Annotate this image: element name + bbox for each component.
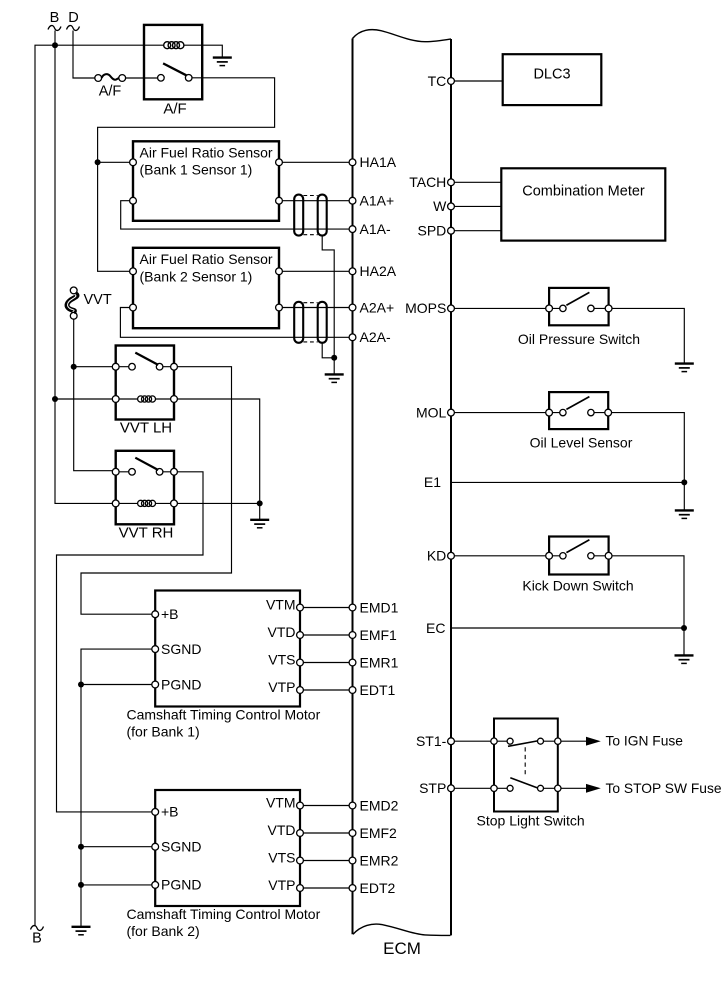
pin EMR2 (ECM) bbox=[349, 852, 399, 868]
pin EMD2 (ECM) bbox=[349, 797, 399, 813]
wire MOPS to oil pressure switch bbox=[454, 307, 545, 309]
relay K1 A/F box bbox=[144, 25, 202, 99]
pin AFR1 upper-left bbox=[130, 159, 137, 166]
motor box: Camshaft Timing Control Motor (for Bank 2) bbox=[155, 790, 300, 906]
ground (relay coil) bbox=[213, 58, 232, 66]
wire HA1A bbox=[282, 161, 349, 163]
svg-text:+B: +B bbox=[161, 606, 179, 622]
pin SGND bank2 bbox=[152, 843, 159, 850]
pin MOL (ECM) bbox=[416, 404, 454, 420]
wire B bus to A/F relay coil bbox=[55, 44, 164, 46]
svg-text:Air Fuel Ratio Sensor: Air Fuel Ratio Sensor bbox=[140, 251, 273, 267]
pin AFR2 lower-left bbox=[130, 304, 137, 311]
valve VVT RH (oil control valve box) bbox=[116, 451, 174, 525]
pin PGND bank2 bbox=[152, 882, 159, 889]
svg-text:B: B bbox=[32, 931, 42, 947]
relay switch blade bbox=[163, 63, 186, 75]
wire STP output to stop switch fuse bbox=[561, 787, 586, 789]
wire VTP to EDT2 bbox=[303, 887, 349, 889]
ground (EC) bbox=[675, 655, 694, 663]
wire SPD to combination meter bbox=[454, 230, 501, 232]
wire KD to kick down switch bbox=[454, 555, 545, 557]
svg-text:(for Bank 2): (for Bank 2) bbox=[127, 923, 200, 939]
svg-text:Stop Light Switch: Stop Light Switch bbox=[477, 812, 585, 828]
wire PGND bank1 to ground bus bbox=[81, 684, 152, 686]
wire VTD to EMF1 bbox=[303, 634, 349, 636]
svg-text:PGND: PGND bbox=[161, 877, 201, 893]
junction shield drains bbox=[331, 355, 337, 361]
pin VVT LH coil right bbox=[171, 396, 178, 403]
svg-text:STP: STP bbox=[419, 780, 446, 796]
VVT LH coil bbox=[138, 396, 156, 402]
svg-text:MOL: MOL bbox=[416, 404, 447, 420]
pin VTM bank1 bbox=[297, 604, 304, 611]
svg-text:SGND: SGND bbox=[161, 839, 201, 855]
wire EC junction to ground bbox=[683, 628, 685, 655]
svg-text:A/F: A/F bbox=[163, 101, 186, 118]
wire SGND bank2 to ground bus bbox=[81, 846, 152, 848]
wire B bus tap to VVT LH coil left pin bbox=[55, 398, 112, 400]
svg-text:W: W bbox=[433, 198, 447, 214]
wire MOL to oil level sensor bbox=[454, 412, 545, 414]
pin HA1A (ECM) bbox=[349, 154, 397, 170]
fuse A/F bbox=[95, 74, 126, 81]
meter box: Combination Meter bbox=[501, 168, 665, 240]
wire fuse to relay switch contact bbox=[126, 77, 158, 79]
svg-text:MOPS: MOPS bbox=[405, 300, 446, 316]
pin MOPS (ECM) bbox=[405, 300, 454, 316]
svg-text:VTP: VTP bbox=[268, 679, 295, 695]
wire supply stub to AFR sensor 1 bbox=[98, 161, 130, 163]
svg-text:EC: EC bbox=[426, 620, 445, 636]
pin HA2A (ECM) bbox=[349, 263, 397, 279]
wire ST1- to stop light switch bbox=[454, 740, 490, 742]
pin SPD (ECM) bbox=[418, 223, 455, 239]
svg-text:VTD: VTD bbox=[268, 624, 296, 640]
arrow to STOP SW fuse bbox=[586, 784, 601, 793]
svg-text:EMR1: EMR1 bbox=[360, 654, 399, 670]
wire EC bbox=[452, 627, 684, 629]
wire TACH to combination meter bbox=[454, 181, 501, 183]
pin EMF1 (ECM) bbox=[349, 627, 397, 643]
svg-text:Oil Level Sensor: Oil Level Sensor bbox=[530, 434, 633, 450]
relay switch contacts bbox=[158, 75, 165, 82]
svg-text:ST1-: ST1- bbox=[416, 733, 447, 749]
pin A1A+ (ECM) bbox=[349, 193, 394, 209]
svg-text:VTS: VTS bbox=[268, 850, 295, 866]
pin VVT LH switch right bbox=[171, 363, 178, 370]
wire VTM to EMD2 bbox=[303, 805, 349, 807]
pin VTP bank2 bbox=[297, 885, 304, 892]
wire drain to ground bbox=[333, 358, 335, 374]
junction VVT coils ground bbox=[257, 500, 263, 506]
svg-text:DLC3: DLC3 bbox=[533, 67, 570, 83]
connector box DLC3 bbox=[503, 54, 602, 105]
svg-text:Camshaft Timing Control Motor: Camshaft Timing Control Motor bbox=[127, 706, 321, 722]
pin ST1- (ECM) bbox=[416, 733, 454, 749]
svg-text:EMF2: EMF2 bbox=[360, 825, 398, 841]
switch S1: Oil Pressure Switch bbox=[546, 288, 612, 325]
pin AFR2 upper-left bbox=[130, 268, 137, 275]
relay coil bbox=[164, 42, 184, 49]
pin A2A- (ECM) bbox=[349, 329, 391, 345]
valve VVT LH (oil control valve box) bbox=[116, 346, 174, 420]
pin TACH (ECM) bbox=[409, 174, 454, 190]
node B (battery bus, top label and break) bbox=[48, 10, 61, 30]
wire PGND bank2 to ground bus bbox=[81, 884, 152, 886]
pin TC (ECM) bbox=[428, 73, 455, 89]
wire relay output to AFR sensors supply bbox=[98, 78, 275, 271]
svg-text:+B: +B bbox=[161, 804, 179, 820]
wire E1 bbox=[452, 481, 684, 483]
sensor box: Air Fuel Ratio Sensor (Bank 2 Sensor 1) bbox=[133, 248, 279, 328]
svg-text:A2A-: A2A- bbox=[360, 329, 391, 345]
svg-text:VTS: VTS bbox=[268, 652, 295, 668]
svg-text:VVT LH: VVT LH bbox=[120, 420, 172, 437]
svg-text:KD: KD bbox=[427, 548, 446, 564]
svg-text:Air Fuel Ratio Sensor: Air Fuel Ratio Sensor bbox=[140, 144, 273, 160]
svg-text:Camshaft Timing Control Motor: Camshaft Timing Control Motor bbox=[127, 906, 321, 922]
wire junction to ground bbox=[259, 503, 261, 519]
wire oil level sensor to E1 junction bbox=[612, 413, 685, 483]
svg-text:A/F: A/F bbox=[99, 84, 122, 100]
ground (E1) bbox=[675, 510, 694, 518]
svg-text:To STOP SW Fuse: To STOP SW Fuse bbox=[606, 781, 722, 796]
wire VTM to EMD1 bbox=[303, 607, 349, 609]
svg-text:SPD: SPD bbox=[418, 223, 447, 239]
wire TC to DLC3 bbox=[454, 80, 502, 82]
junction PGND bank1 bbox=[78, 682, 84, 688]
pin EMR1 (ECM) bbox=[349, 654, 399, 670]
pin AFR1 lower-left bbox=[130, 197, 137, 204]
svg-text:VTP: VTP bbox=[268, 877, 295, 893]
wire A1A- under-box route bbox=[121, 201, 349, 229]
svg-text:VTM: VTM bbox=[266, 795, 296, 811]
wire VVT LH switch to +B of motor bank 1 bbox=[81, 367, 232, 615]
connector VVT (twisted wire symbol) bbox=[67, 287, 77, 319]
svg-text:EDT2: EDT2 bbox=[360, 880, 396, 896]
wire W to combination meter bbox=[454, 205, 501, 207]
wire kick down switch to EC junction bbox=[612, 556, 684, 628]
pin +B bank2 bbox=[152, 809, 159, 816]
node B (bottom label and break) bbox=[31, 926, 44, 947]
svg-text:A2A+: A2A+ bbox=[360, 299, 395, 315]
arrow to IGN fuse bbox=[586, 737, 601, 746]
svg-text:HA1A: HA1A bbox=[360, 154, 397, 170]
wire A2A+ bbox=[282, 307, 349, 309]
svg-text:E1: E1 bbox=[424, 474, 441, 490]
svg-text:(for Bank 1): (for Bank 1) bbox=[127, 724, 200, 740]
pin VTD bank2 bbox=[297, 830, 304, 837]
svg-text:EMF1: EMF1 bbox=[360, 627, 398, 643]
pin EDT1 (ECM) bbox=[349, 682, 395, 698]
svg-text:EMD2: EMD2 bbox=[360, 797, 399, 813]
wire VTP to EDT1 bbox=[303, 689, 349, 691]
pin A1A- (ECM) bbox=[349, 221, 391, 237]
pin EMF2 (ECM) bbox=[349, 825, 397, 841]
svg-text:VTD: VTD bbox=[268, 822, 296, 838]
wire SGND bank1 to ground bus bbox=[81, 649, 152, 926]
pin SGND bank1 bbox=[152, 646, 159, 653]
wire A2A- under-box route bbox=[120, 308, 349, 338]
wire ST1- output to IGN fuse bbox=[561, 740, 586, 742]
wire B bus vertical x=55 down to VVT RH coil bbox=[55, 31, 112, 504]
junction on B bus at VVT LH coil tap bbox=[52, 396, 58, 402]
junction SGND bank2 bbox=[78, 844, 84, 850]
pin VTP bank1 bbox=[297, 687, 304, 694]
node D (bus label and break) bbox=[67, 10, 80, 30]
wire VVT LH coil to ground junction bbox=[177, 399, 259, 503]
pin KD (ECM) bbox=[427, 548, 455, 564]
wire VVT tap to VVT LH switch pin bbox=[74, 366, 113, 368]
pin AFR2 lower-right bbox=[276, 304, 283, 311]
svg-text:HA2A: HA2A bbox=[360, 263, 397, 279]
svg-text:(Bank 2 Sensor 1): (Bank 2 Sensor 1) bbox=[140, 268, 253, 284]
wire B bus branch to far-left vertical x=35 bbox=[35, 45, 55, 926]
VVT RH coil bbox=[138, 500, 156, 506]
svg-text:A1A-: A1A- bbox=[360, 221, 391, 237]
motor box: Camshaft Timing Control Motor (for Bank 1) bbox=[155, 591, 300, 707]
svg-text:EMD1: EMD1 bbox=[360, 599, 399, 615]
pin VVT RH coil right bbox=[171, 500, 178, 507]
wire A1A+ bbox=[282, 200, 349, 202]
ECM connector body U1 (ECM) bbox=[353, 30, 452, 936]
svg-text:To IGN Fuse: To IGN Fuse bbox=[606, 734, 684, 749]
pin A2A+ (ECM) bbox=[349, 299, 394, 315]
junction on B bus at y=45 bbox=[52, 42, 58, 48]
pin +B bank1 bbox=[152, 611, 159, 618]
pin PGND bank1 bbox=[152, 681, 159, 688]
junction PGND bank2 bbox=[78, 882, 84, 888]
wire HA2A bbox=[282, 270, 349, 272]
svg-text:TC: TC bbox=[428, 73, 447, 89]
wire VVT RH switch to +B of motor bank 2 bbox=[57, 472, 204, 812]
pin VVT RH switch right bbox=[171, 468, 178, 475]
pin VVT RH switch left bbox=[112, 468, 119, 475]
svg-text:Kick Down Switch: Kick Down Switch bbox=[522, 578, 633, 594]
svg-text:A1A+: A1A+ bbox=[360, 193, 395, 209]
ground (oil pressure switch) bbox=[675, 364, 694, 372]
wire VVT to VVT RH switch bbox=[74, 319, 113, 471]
ground (shield drain) bbox=[325, 374, 344, 382]
svg-text:VVT: VVT bbox=[84, 292, 112, 308]
pin W (ECM) bbox=[433, 198, 454, 214]
svg-text:ECM: ECM bbox=[383, 939, 421, 958]
shield pair 2 (noise filter capsules) bbox=[294, 302, 327, 343]
pin VTS bank2 bbox=[297, 857, 304, 864]
junction VVT tap to VVT LH bbox=[71, 364, 77, 370]
junction EC ground bbox=[681, 625, 687, 631]
svg-text:TACH: TACH bbox=[409, 174, 446, 190]
svg-text:(Bank 1 Sensor 1): (Bank 1 Sensor 1) bbox=[140, 162, 253, 178]
svg-text:Oil Pressure Switch: Oil Pressure Switch bbox=[518, 331, 640, 347]
wire VVT RH coil to ground junction bbox=[177, 502, 259, 504]
wire VTD to EMF2 bbox=[303, 832, 349, 834]
pin AFR2 upper-right bbox=[276, 268, 283, 275]
junction AFR supply at sensor 1 bbox=[95, 159, 101, 165]
pin VVT LH coil left bbox=[112, 396, 119, 403]
wire shield drain 2 bbox=[322, 343, 334, 358]
svg-text:B: B bbox=[50, 10, 60, 26]
pin VTM bank2 bbox=[297, 802, 304, 809]
wire VTS to EMR2 bbox=[303, 860, 349, 862]
svg-text:PGND: PGND bbox=[161, 676, 201, 692]
wire E1 junction to ground bbox=[683, 482, 685, 510]
ground (motor ground bus) bbox=[72, 927, 91, 935]
svg-text:Combination Meter: Combination Meter bbox=[522, 183, 645, 199]
switch S3: Kick Down Switch bbox=[546, 537, 612, 575]
svg-text:EMR2: EMR2 bbox=[360, 852, 399, 868]
pin AFR1 lower-right bbox=[276, 197, 283, 204]
pin STP (ECM) bbox=[419, 780, 454, 796]
pin VVT RH coil left bbox=[112, 500, 119, 507]
sensor box: Air Fuel Ratio Sensor (Bank 1 Sensor 1) bbox=[133, 141, 279, 221]
pin VTD bank1 bbox=[297, 632, 304, 639]
pin EDT2 (ECM) bbox=[349, 880, 395, 896]
wire oil pressure switch to ground bbox=[612, 308, 684, 363]
svg-text:VTM: VTM bbox=[266, 597, 296, 613]
svg-text:D: D bbox=[68, 10, 78, 26]
wire relay coil to ground bbox=[184, 45, 222, 57]
svg-text:EDT1: EDT1 bbox=[360, 682, 396, 698]
wire D bus to A/F fuse bbox=[73, 31, 95, 79]
switch S2: Oil Level Sensor bbox=[546, 392, 612, 429]
wire STP to stop light switch bbox=[454, 787, 490, 789]
wire VTS to EMR1 bbox=[303, 662, 349, 664]
pin AFR1 upper-right bbox=[276, 159, 283, 166]
svg-text:SGND: SGND bbox=[161, 641, 201, 657]
junction E1 ground bbox=[681, 479, 687, 485]
shield pair 1 (noise filter capsules) bbox=[294, 195, 327, 236]
switch S4: Stop Light Switch bbox=[491, 719, 561, 812]
pin EMD1 (ECM) bbox=[349, 599, 399, 615]
svg-text:VVT RH: VVT RH bbox=[119, 525, 174, 542]
ground (VVT coils) bbox=[250, 520, 269, 528]
pin VVT LH switch left bbox=[112, 363, 119, 370]
wire shield drain 1 bbox=[322, 236, 334, 358]
pin VTS bank1 bbox=[297, 659, 304, 666]
